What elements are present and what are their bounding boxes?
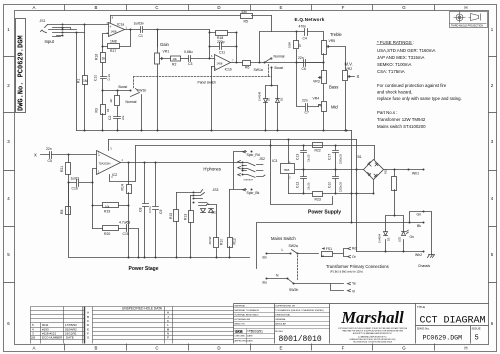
wire bridge bottom (373, 180, 375, 194)
capacitor C2 (114, 117, 121, 131)
svg-text:+: + (98, 154, 100, 158)
svg-text:A: A (33, 5, 36, 10)
svg-text:C16: C16 (72, 187, 78, 191)
svg-text:C10: C10 (328, 182, 332, 188)
svg-text:C5: C5 (48, 159, 52, 163)
svg-text:Transformer 12W TM942: Transformer 12W TM942 (377, 117, 426, 122)
svg-text:CCT DIAGRAM: CCT DIAGRAM (420, 316, 486, 327)
resistor R22 on 0V rail (313, 143, 323, 148)
power supply enclosure wire (271, 140, 333, 205)
resistor R15 (174, 193, 179, 258)
dashed link SW2 (297, 256, 299, 281)
svg-text:E: E (280, 5, 283, 10)
wire rail to secondary (356, 140, 358, 252)
svg-text:JS2: JS2 (259, 157, 265, 161)
svg-text:C7: C7 (305, 111, 309, 115)
svg-text:+: + (215, 66, 217, 70)
capacitor C7 and wire to mid pot (297, 63, 319, 111)
svg-text:UNSPECIFIED HOLE DATA: UNSPECIFIED HOLE DATA (122, 306, 163, 310)
svg-text:VR2: VR2 (346, 67, 353, 71)
capacitor C10 psu (333, 170, 339, 194)
DWG number box (16, 19, 26, 113)
svg-text:4R7/W: 4R7/W (208, 236, 212, 244)
Marshall logo (338, 308, 408, 343)
svg-text:Marshall: Marshall (340, 308, 404, 327)
svg-text:22u: 22u (121, 115, 125, 120)
resistor R1 (83, 76, 88, 85)
zone letters top (33, 5, 468, 10)
svg-text:TDA2030H: TDA2030H (99, 163, 111, 166)
svg-text:C3: C3 (188, 62, 192, 66)
svg-text:2A: 2A (321, 255, 324, 258)
capacitor C16 (69, 180, 93, 187)
svg-text:R16: R16 (95, 54, 99, 60)
svg-text:SW1b: SW1b (137, 89, 146, 93)
svg-text:CHECKED: CHECKED (235, 336, 246, 338)
zone tick marks left band (4, 57, 15, 283)
svg-text:X: X (357, 74, 360, 79)
svg-text:+: + (110, 25, 112, 29)
resistor R2 (171, 56, 189, 61)
resistor R25 (392, 170, 397, 216)
svg-text:C8: C8 (139, 208, 143, 212)
svg-text:R20: R20 (104, 232, 110, 236)
svg-text:Power Supply: Power Supply (308, 210, 341, 216)
svg-text:Normal: Normal (274, 55, 285, 59)
svg-text:B: B (95, 5, 98, 10)
potentiometer VR5 treble (322, 41, 346, 71)
svg-text:8001/8010: 8001/8010 (279, 335, 322, 344)
resistor R17 feedback (103, 30, 131, 49)
wire rail to EQ (271, 16, 273, 32)
svg-text:R23: R23 (315, 198, 321, 202)
switch SW1a (265, 58, 272, 63)
svg-text:Spkr_Bk: Spkr_Bk (247, 191, 260, 195)
svg-text:SW2b: SW2b (289, 288, 298, 292)
feedback vertical and resistor R14 (127, 163, 132, 258)
potentiometer VR2 MV (343, 71, 355, 131)
resistor R20 (93, 226, 127, 231)
wire IC1b plus input to bus (212, 67, 215, 131)
svg-text:Boost: Boost (119, 85, 128, 89)
svg-text:R8: R8 (60, 210, 64, 214)
svg-text:THIRD ANGLE PROJECTION: THIRD ANGLE PROJECTION (451, 25, 483, 28)
svg-text:7805: 7805 (284, 168, 290, 172)
svg-text:VR5: VR5 (329, 39, 336, 43)
svg-text:C: C (155, 5, 158, 10)
ground bus preamp 0V (77, 130, 352, 132)
svg-text:X: X (34, 153, 37, 158)
svg-text:C: C (155, 346, 158, 351)
resistor R23 (313, 192, 323, 197)
svg-text:2200u/25: 2200u/25 (340, 153, 343, 164)
unspecified hole data table (85, 307, 234, 344)
svg-text:Boost: Boost (275, 66, 284, 70)
zone tick marks bottom band (65, 344, 435, 351)
svg-text:A: A (33, 346, 36, 351)
diode pair D1 power (201, 209, 214, 213)
mains switch SW2a row (267, 247, 351, 257)
svg-text:R2: R2 (172, 63, 176, 67)
svg-text:Wh2: Wh2 (415, 253, 422, 257)
svg-text:R3: R3 (95, 108, 99, 112)
svg-text:Vi: Vi (352, 290, 355, 294)
svg-text:DWG.No. PC0629.DGM: DWG.No. PC0629.DGM (18, 35, 26, 111)
resistor R13 (189, 196, 194, 258)
zone numbers left (7, 27, 10, 326)
svg-text:22n: 22n (302, 99, 308, 103)
svg-text:-: - (98, 169, 99, 173)
svg-text:R19: R19 (104, 210, 110, 214)
svg-text:1M8: 1M8 (110, 40, 117, 44)
chassis ground symbol (428, 255, 435, 258)
svg-text:Part No.s :: Part No.s : (377, 110, 398, 115)
potentiometer VR1 gain (155, 30, 210, 131)
revision table (bottom left) (31, 307, 85, 344)
svg-text:GENERAL: GENERAL (275, 318, 286, 321)
svg-text:Wh1: Wh1 (412, 172, 419, 176)
svg-text:-: - (215, 58, 216, 62)
svg-text:Bn: Bn (263, 256, 267, 260)
resistor R7 (294, 32, 299, 63)
svg-text:C1: C1 (139, 34, 143, 38)
wire +V rail power (109, 139, 357, 141)
regulator IC3 (281, 140, 295, 194)
svg-text:0.47u: 0.47u (148, 206, 152, 213)
svg-text:Transformer Primary Connection: Transformer Primary Connections (326, 264, 389, 269)
diode D2 (276, 86, 280, 131)
svg-text:C17: C17 (328, 154, 332, 160)
svg-text:G: G (402, 5, 406, 10)
svg-text:Input: Input (45, 39, 55, 44)
svg-text:2|9: 2|9 (31, 336, 35, 340)
svg-text:G: G (402, 346, 406, 351)
resistor R19 (93, 183, 129, 229)
svg-text:C10: C10 (94, 75, 98, 81)
svg-text:Mains switch ST4100200: Mains switch ST4100200 (377, 124, 426, 129)
svg-text:R7: R7 (298, 43, 302, 47)
capacitor C5 (50, 152, 52, 159)
wire AC feed left (351, 131, 353, 223)
svg-text:2200u/25: 2200u/25 (340, 181, 343, 192)
op-amp IC1a (109, 16, 125, 37)
svg-text:10k: 10k (173, 57, 178, 61)
wire bus to bridge top (374, 146, 376, 160)
svg-text:Rd: Rd (352, 247, 356, 251)
svg-text:CSA: T175mA: CSA: T175mA (377, 69, 405, 74)
svg-text:63v: 63v (242, 10, 248, 14)
svg-text:and shock hazard,: and shock hazard, (377, 90, 413, 95)
resistor R5 on rail (241, 14, 253, 19)
svg-text:IC2: IC2 (112, 173, 117, 177)
potentiometer VR3 bass (319, 71, 327, 101)
wire EQ top (260, 32, 324, 63)
svg-text:Spkr_Rd: Spkr_Rd (247, 153, 260, 157)
svg-text:SW1a: SW1a (254, 68, 263, 72)
headphone jack JS2 contacts (238, 161, 265, 178)
svg-text:ANGULAR: ANGULAR (275, 323, 286, 326)
svg-text:470n: 470n (299, 25, 307, 29)
svg-text:B: B (95, 346, 98, 351)
resistor R21 (66, 155, 71, 183)
svg-text:R10: R10 (220, 239, 224, 245)
svg-text:STEREOP: STEREOP (244, 179, 254, 181)
svg-text:DATE: DATE (247, 335, 253, 338)
svg-text:AUTHORITY OF MARSHALL AMPLIFIC: AUTHORITY OF MARSHALL AMPLIFICATION PLC (353, 332, 393, 335)
zone tick marks right band (489, 57, 497, 283)
third angle projection symbol box (450, 12, 488, 28)
svg-text:H'phones: H'phones (203, 166, 221, 171)
wire 0V return rail (136, 145, 375, 147)
resistor R3 (101, 91, 106, 131)
svg-text:LED: LED (398, 237, 402, 242)
svg-text:Power Stage: Power Stage (129, 266, 159, 272)
svg-text:R15: R15 (169, 213, 173, 219)
svg-text:TITLE: TITLE (417, 305, 425, 309)
svg-text:Panel switch: Panel switch (198, 80, 217, 84)
potentiometer VR4 mid (319, 102, 327, 131)
wire output row (121, 162, 243, 164)
svg-text:1u/63v: 1u/63v (134, 22, 144, 26)
svg-text:IC3: IC3 (272, 159, 277, 163)
svg-text:MATERIAL: MATERIAL (235, 305, 247, 308)
svg-text:R13: R13 (184, 214, 188, 220)
svg-text:On: On (410, 235, 415, 239)
svg-text:0.1u: 0.1u (107, 74, 111, 81)
speaker connector wires (230, 151, 247, 191)
wire boost node to diode clamp (271, 68, 273, 86)
svg-text:C15: C15 (123, 232, 129, 236)
svg-text:E: E (280, 346, 283, 351)
svg-text:VR1: VR1 (163, 50, 170, 54)
wire C16 to inverting input (93, 169, 97, 183)
svg-text:SW2a: SW2a (289, 244, 298, 248)
svg-text:For continued protection again: For continued protection against fire (377, 83, 447, 88)
svg-text:D: D (217, 5, 220, 10)
svg-text:Chassis: Chassis (418, 264, 430, 268)
svg-text:Bu: Bu (263, 281, 267, 285)
svg-text:L: L (282, 248, 284, 252)
svg-text:Mid: Mid (331, 105, 338, 110)
svg-text:DATE: DATE (247, 340, 253, 343)
wire mid rail (296, 169, 364, 171)
svg-text:1N4148: 1N4148 (258, 91, 262, 101)
capacitor C4 (305, 29, 308, 36)
svg-text:16/03/91: 16/03/91 (251, 330, 264, 334)
svg-text:Treble: Treble (330, 32, 342, 37)
wire Bk secondary (257, 223, 424, 269)
svg-text:EXTERNAL B/R: EXTERNAL B/R (235, 318, 251, 321)
title block frame (234, 304, 489, 344)
svg-text:VR3: VR3 (313, 80, 320, 84)
mains switch SW2b row (267, 279, 351, 292)
svg-text:E.Q.Network: E.Q.Network (295, 17, 325, 22)
svg-text:1M: 1M (83, 79, 88, 83)
svg-text:C6: C6 (302, 67, 306, 71)
svg-text:4.7u/63: 4.7u/63 (119, 221, 130, 225)
svg-text:R12: R12 (233, 238, 237, 244)
svg-text:D1: D1 (267, 97, 271, 101)
svg-text:ECO NUMBER: ECO NUMBER (42, 336, 63, 340)
svg-text:H: H (464, 346, 467, 351)
svg-text:10u/25: 10u/25 (308, 154, 311, 162)
svg-text:1u/63: 1u/63 (71, 177, 80, 181)
svg-text:VR4: VR4 (313, 97, 320, 101)
wire +V rail top (111, 15, 272, 17)
diode D1 (264, 63, 324, 131)
resistor R18 feedback (210, 30, 237, 59)
capacitor C17 (333, 146, 339, 170)
input jack JS1 (41, 25, 109, 37)
svg-text:DATE: DATE (66, 336, 74, 340)
resistor R8 (66, 183, 71, 258)
wire X input power stage (41, 154, 97, 156)
capacitor C9 (153, 163, 159, 258)
svg-text:Gain: Gain (160, 42, 170, 47)
svg-text:R1: R1 (77, 79, 81, 83)
svg-text:10u/25: 10u/25 (308, 182, 311, 190)
svg-text:H: H (464, 5, 467, 10)
svg-text:SEMKO: T100mA: SEMKO: T100mA (377, 62, 412, 67)
zone numbers right (491, 27, 494, 326)
svg-text:R17: R17 (110, 49, 116, 53)
svg-text:C12: C12 (296, 182, 300, 188)
svg-text:M.V.: M.V. (345, 62, 353, 67)
svg-text:22n: 22n (46, 147, 52, 151)
capacitor C6 (297, 60, 324, 67)
LED indicator box D3 (384, 216, 409, 252)
svg-text:1N4004: 1N4004 (378, 233, 382, 243)
svg-text:180R: 180R (288, 42, 292, 48)
schematic small labels (40, 10, 248, 120)
svg-text:D: D (217, 346, 220, 351)
svg-text:IC1a: IC1a (117, 23, 124, 27)
resistor R12 (228, 190, 233, 258)
svg-text:Ye: Ye (352, 282, 356, 286)
svg-text:220p: 220p (217, 40, 225, 44)
svg-text:R25: R25 (384, 169, 388, 174)
svg-text:C9: C9 (159, 210, 163, 214)
ground bus power stage (69, 183, 250, 258)
fuse ratings note (377, 40, 462, 129)
capacitor C3 (189, 56, 215, 62)
svg-text:MODEL: MODEL (275, 331, 284, 333)
svg-text:P: P (167, 336, 169, 340)
wire jack verticals (77, 25, 85, 131)
svg-text:Bk: Bk (417, 224, 421, 228)
svg-text:R21: R21 (60, 166, 64, 172)
svg-text:INTERNAL BEND RADII: INTERNAL BEND RADII (235, 314, 259, 317)
capacitor C11 (210, 33, 237, 63)
svg-text:-: - (110, 32, 111, 36)
svg-text:Mains Switch: Mains Switch (271, 236, 296, 241)
svg-text:IC1b: IC1b (225, 67, 232, 71)
svg-text:R22: R22 (315, 149, 321, 153)
panel switch dashed link (134, 65, 272, 89)
svg-text:MATERIAL TOLERANCE: MATERIAL TOLERANCE (235, 309, 260, 312)
svg-text:PC0629.DGM: PC0629.DGM (423, 335, 463, 342)
svg-text:F: F (342, 346, 345, 351)
capacitor C10 (101, 77, 107, 91)
svg-text:TEL (0908) 375411 TLX 826791 F: TEL (0908) 375411 TLX 826791 FAX (0908) … (353, 340, 392, 343)
svg-text:DWG.No.: DWG.No. (417, 326, 430, 330)
capacitor C15 (127, 225, 139, 258)
op-amp IC2 TDA2030 (97, 140, 136, 182)
svg-text:SKB: SKB (235, 330, 243, 334)
zone letters bottom (33, 346, 468, 351)
svg-text:R14: R14 (121, 184, 125, 190)
switch SW1b boost (103, 89, 142, 131)
svg-text:JAP AND MEX: T315mA: JAP AND MEX: T315mA (377, 55, 424, 60)
svg-text:1k: 1k (102, 57, 106, 61)
svg-text:D3: D3 (387, 237, 391, 241)
svg-text:R5: R5 (244, 19, 248, 23)
svg-text:10k: 10k (105, 204, 110, 208)
svg-text:JS3: JS3 (213, 188, 219, 192)
svg-text:0.68u: 0.68u (184, 50, 193, 54)
svg-text:C11: C11 (219, 51, 225, 55)
svg-text:USA,STD AND GER: T160mA: USA,STD AND GER: T160mA (377, 48, 435, 53)
svg-text:22n: 22n (298, 56, 304, 60)
svg-text:Gn: Gn (417, 213, 422, 217)
wire bottom rail PSU (289, 193, 373, 195)
resistor R4 (115, 91, 120, 117)
capacitor C1 (125, 27, 158, 33)
svg-text:F: F (342, 5, 345, 10)
resistor R10 (207, 205, 219, 258)
svg-text:BEND V/S: BEND V/S (235, 324, 246, 326)
svg-text:1458: 1458 (111, 30, 117, 34)
svg-text:C2: C2 (108, 116, 112, 120)
svg-text:APPROVED: APPROVED (235, 340, 248, 343)
svg-text:replace fuse only with same ty: replace fuse only with same type and rat… (377, 96, 462, 101)
capacitor C13 (301, 146, 307, 170)
svg-text:C13: C13 (296, 154, 300, 160)
wire IC1a output to gain pot (157, 30, 159, 47)
resistor R16 (101, 47, 106, 77)
headphone jack JS3 (177, 190, 210, 206)
svg-text:ISSUE: ISSUE (472, 326, 481, 330)
wire Wh2 secondary (357, 251, 424, 253)
svg-text:DIMENSIONAL: DIMENSIONAL (275, 314, 291, 317)
svg-text:D1: D1 (212, 211, 216, 215)
title block small rows (234, 308, 330, 344)
resistor R6 output (231, 61, 297, 66)
op-amp IC1b (215, 55, 231, 71)
svg-text:1458: 1458 (217, 61, 223, 65)
svg-text:SUPERSEDING DR: SUPERSEDING DR (275, 306, 295, 308)
svg-text:JS1: JS1 (40, 19, 46, 23)
svg-text:FS1: FS1 (326, 247, 332, 251)
svg-text:4k7: 4k7 (109, 98, 113, 103)
svg-text:R6: R6 (245, 66, 249, 70)
wire Gn stub (410, 212, 432, 255)
svg-text:R4: R4 (106, 108, 110, 112)
svg-text:B1: B1 (358, 155, 362, 159)
svg-text:5: 5 (475, 335, 479, 343)
svg-text:Bass: Bass (329, 85, 338, 90)
svg-text:(P1.Br2 & Bk2 only for 120v): (P1.Br2 & Bk2 only for 120v) (330, 270, 363, 274)
svg-text:C4: C4 (303, 36, 307, 40)
svg-text:TOLERANCES (UNLESS OTHERWISE S: TOLERANCES (UNLESS OTHERWISE STATED) (275, 309, 324, 312)
svg-text:Normal: Normal (126, 100, 137, 104)
bridge rectifier B1 (364, 160, 384, 180)
svg-text:D2: D2 (280, 97, 284, 101)
wire bridge right Wh1 (384, 169, 424, 171)
capacitor C8 (143, 163, 149, 258)
capacitor C12 (301, 170, 307, 194)
